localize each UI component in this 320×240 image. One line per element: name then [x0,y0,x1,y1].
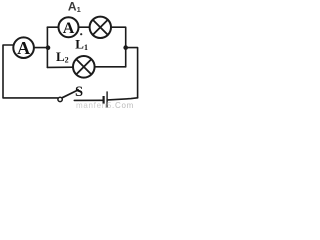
junction node (right) [123,45,128,50]
svg-text:manfen5.Com: manfen5.Com [76,101,134,109]
battery positive plate (long, thin) [106,91,108,107]
wire top branch: corner to ammeter A1 [47,26,57,28]
svg-text:S: S [75,84,83,100]
wire left branch vertical (junction up to top branch corner, down to L2 corner) [46,27,48,67]
switch S pivot [58,97,62,101]
wire bottom right: corner to battery [108,98,138,100]
stray dot under wire near A1/L1 [80,33,82,35]
ammeter A (main, left) [13,37,34,58]
battery negative plate (short, thick) [102,96,104,104]
svg-text:L1: L1 [75,36,88,52]
svg-text:A: A [63,20,75,37]
svg-text:A: A [17,38,30,58]
wire right vertical continues down from junction to L2 corner [125,48,127,67]
ammeter A1 [59,17,79,37]
wire battery to switch fixed contact [74,99,102,101]
junction node (left, after ammeter A) [46,45,51,50]
lamp L2 [73,56,95,78]
lamp L1 [90,17,111,38]
wire lamp L1 to right top corner and down [111,27,126,47]
wire right junction to outer right vertical [126,48,138,98]
wire ammeter A1 to lamp L1 [79,26,89,28]
svg-text:A1: A1 [68,0,81,14]
wire ammeter A to left junction [35,47,48,49]
svg-text:L2: L2 [56,49,69,65]
wire L2 branch: corner to lamp L2 [47,66,73,68]
wire lamp L2 to right corner [95,66,126,68]
switch S lever [62,90,78,98]
wire left vertical + left stub into ammeter A [3,45,58,98]
